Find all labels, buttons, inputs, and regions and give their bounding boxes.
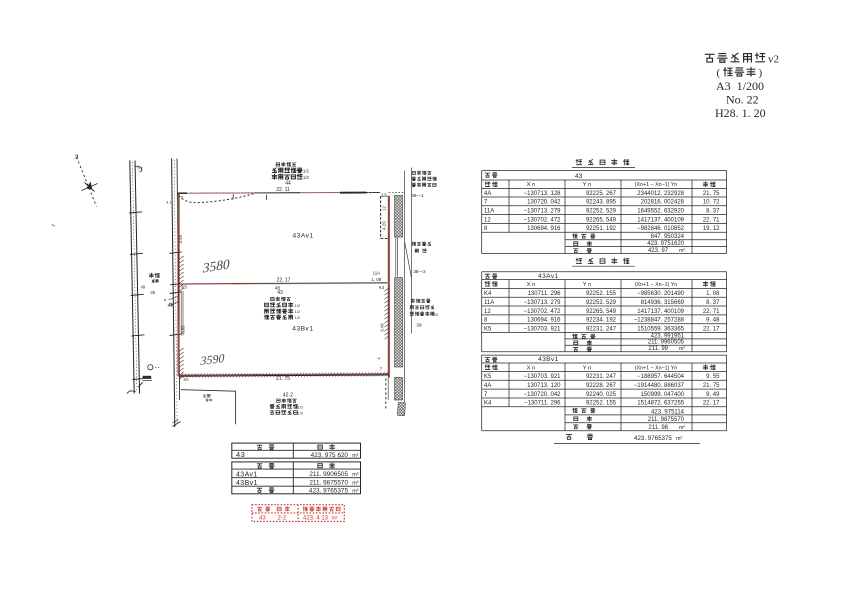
svg-text:43Bv1: 43Bv1 <box>236 480 258 487</box>
svg-text:−130720. 042: −130720. 042 <box>524 392 562 398</box>
svg-text:×: × <box>164 298 167 304</box>
svg-text:−130703. 921: −130703. 921 <box>524 374 562 380</box>
svg-text:22. 11: 22. 11 <box>276 187 290 193</box>
svg-text:92251. 192: 92251. 192 <box>586 226 617 232</box>
svg-text:19. 12: 19. 12 <box>703 226 720 232</box>
svg-text:92240. 025: 92240. 025 <box>586 392 617 398</box>
svg-text:847. 950324: 847. 950324 <box>651 234 685 240</box>
boundary step line to parcel 42-2 <box>181 390 236 425</box>
svg-text:11A: 11A <box>484 300 494 306</box>
svg-text:92252. 529: 92252. 529 <box>586 300 617 306</box>
parcel bottom boundary (4A to 7) with hatch <box>179 372 389 378</box>
svg-text:1/2: 1/2 <box>295 303 301 308</box>
svg-text:): ) <box>759 67 763 79</box>
svg-text:43Av1: 43Av1 <box>538 273 559 280</box>
survey marks near K5 <box>164 297 178 308</box>
svg-text:814936. 315669: 814936. 315669 <box>641 300 685 306</box>
area summary table divided parcels <box>232 462 361 495</box>
svg-text:1649552. 632920: 1649552. 632920 <box>637 209 684 215</box>
svg-text:−188957. 644504: −188957. 644504 <box>637 374 685 380</box>
svg-text:4.49: 4.49 <box>178 235 183 244</box>
road west bottom hook <box>127 391 136 394</box>
area summary table parcel 43 <box>232 443 361 459</box>
svg-text:9. 49: 9. 49 <box>706 392 720 398</box>
svg-text:22. 17: 22. 17 <box>703 401 720 407</box>
east boundary hatch ticks <box>385 288 389 339</box>
svg-text:m²: m² <box>352 489 358 495</box>
west boundary hatch ticks <box>179 256 183 379</box>
svg-text:211. 9960505: 211. 9960505 <box>648 340 685 346</box>
table title 座標求積表 (43Av1) <box>572 258 635 266</box>
east channel crosshatch strip lower <box>395 378 403 401</box>
svg-text:1417137. 400109: 1417137. 400109 <box>637 217 684 223</box>
svg-text:38—1: 38—1 <box>411 193 424 198</box>
svg-text:4A: 4A <box>183 377 190 382</box>
svg-text:No. 22: No. 22 <box>726 93 759 107</box>
grand total 合計 <box>554 434 700 443</box>
svg-text:130711. 296: 130711. 296 <box>528 291 562 297</box>
svg-text:44: 44 <box>285 180 291 186</box>
svg-text:43: 43 <box>277 290 283 296</box>
svg-text:−130711. 296: −130711. 296 <box>524 401 561 407</box>
east channel crosshatch stub below <box>397 402 405 415</box>
svg-text:1/2: 1/2 <box>295 309 301 314</box>
svg-text:Y n: Y n <box>583 282 592 288</box>
svg-text:(Xn+1 − Xn−1) Yn: (Xn+1 − Xn−1) Yn <box>635 365 678 371</box>
svg-text:130713. 120: 130713. 120 <box>527 383 561 389</box>
svg-text:9. 55: 9. 55 <box>706 374 720 380</box>
svg-text:1/2: 1/2 <box>295 315 301 320</box>
svg-text:38—2: 38—2 <box>413 269 426 274</box>
owner block inside 43Bv1 <box>264 285 300 320</box>
svg-text:43: 43 <box>259 515 266 521</box>
east outer road line 2 <box>411 168 413 334</box>
svg-text:11A: 11A <box>484 209 494 215</box>
svg-text:4A: 4A <box>484 383 491 389</box>
svg-text:−130713. 279: −130713. 279 <box>524 300 562 306</box>
svg-text:92234. 192: 92234. 192 <box>586 318 617 324</box>
road west tick marks <box>129 212 145 380</box>
svg-text:12: 12 <box>484 217 491 223</box>
svg-text:43Av1: 43Av1 <box>236 471 258 478</box>
svg-text:(: ( <box>717 67 721 79</box>
east road diagonal joint <box>405 243 412 278</box>
svg-text:8. 37: 8. 37 <box>706 209 720 215</box>
road east lower hatch mark <box>173 420 181 427</box>
svg-text:v2: v2 <box>768 54 779 66</box>
svg-text:4.20: 4.20 <box>382 221 387 230</box>
svg-text:423. 4 13: 423. 4 13 <box>303 515 329 521</box>
svg-text:11A: 11A <box>373 270 381 275</box>
notch dimension text (rotated) <box>382 206 387 230</box>
drawing title 分割計画図v2 <box>705 53 779 65</box>
svg-text:423. 9751620: 423. 9751620 <box>647 241 684 247</box>
svg-text:92225. 267: 92225. 267 <box>586 191 617 197</box>
east outer road line 1 <box>404 171 406 403</box>
svg-text:K4: K4 <box>484 291 492 297</box>
parcel top boundary (point 7 to 13) <box>178 191 405 197</box>
svg-text:1/2: 1/2 <box>298 410 304 415</box>
svg-text:1417137. 400109: 1417137. 400109 <box>637 309 684 315</box>
svg-text:49: 49 <box>141 284 146 289</box>
coordinate area table parcel 43Av1 <box>482 272 727 352</box>
divider line K5-K4 <box>170 283 389 285</box>
svg-text:423. 991951: 423. 991951 <box>651 333 685 339</box>
svg-text:K5: K5 <box>484 374 492 380</box>
svg-text:92265. 549: 92265. 549 <box>586 217 617 223</box>
notch inner boundary at point 13 <box>381 196 389 238</box>
svg-text:211. 9875570: 211. 9875570 <box>309 480 348 487</box>
svg-text:1/2: 1/2 <box>433 313 438 317</box>
neighbour block 38-1 labels <box>411 171 436 198</box>
svg-text:1510559. 363365: 1510559. 363365 <box>637 326 684 332</box>
neighbour block 39 labels <box>410 299 438 329</box>
svg-text:−130703. 921: −130703. 921 <box>524 326 562 332</box>
coordinate area table parcel 43 <box>482 171 727 254</box>
coordinate area table parcel 43Bv1 <box>482 355 727 431</box>
svg-text:Y n: Y n <box>583 182 592 188</box>
svg-text:5-2: 5-2 <box>138 167 143 171</box>
svg-text:35: 35 <box>150 290 155 295</box>
small cursive label near step <box>203 394 212 401</box>
boundary dashed continuation below SE corner <box>385 379 387 411</box>
svg-text:22. 71: 22. 71 <box>703 309 720 315</box>
svg-text:130694. 916: 130694. 916 <box>527 226 561 232</box>
svg-text:9. 48: 9. 48 <box>706 318 720 324</box>
north arrow <box>76 155 98 207</box>
svg-text:92231. 247: 92231. 247 <box>586 326 617 332</box>
svg-text:423. 9765375: 423. 9765375 <box>309 488 349 495</box>
svg-text:423. 97: 423. 97 <box>648 248 669 254</box>
svg-text:K4: K4 <box>484 401 492 407</box>
svg-text:9.49: 9.49 <box>379 323 384 332</box>
neighbour block 38-2 labels <box>412 242 431 274</box>
table title 座標求積表 (43) <box>572 159 635 167</box>
svg-text:130720. 042: 130720. 042 <box>527 200 561 206</box>
svg-text:−130702. 472: −130702. 472 <box>524 217 562 223</box>
svg-text:1. 08: 1. 08 <box>706 291 720 297</box>
svg-text:Y n: Y n <box>583 365 592 371</box>
svg-text:−982846. 010852: −982846. 010852 <box>637 226 685 232</box>
svg-text:m²: m² <box>352 472 358 478</box>
svg-text:m²: m² <box>676 436 682 442</box>
svg-text:423. 9765375: 423. 9765375 <box>634 435 672 442</box>
svg-text:43Bv1: 43Bv1 <box>538 356 559 363</box>
svg-text:130694. 916: 130694. 916 <box>527 318 561 324</box>
svg-text:92243. 895: 92243. 895 <box>586 200 617 206</box>
svg-text:H28. 1. 20: H28. 1. 20 <box>715 106 766 120</box>
svg-text:K4: K4 <box>379 285 385 290</box>
east channel crosshatch strip middle <box>395 278 403 368</box>
svg-text:43: 43 <box>575 173 583 180</box>
svg-text:K5: K5 <box>182 285 188 290</box>
svg-text:92252. 529: 92252. 529 <box>586 209 617 215</box>
svg-text:m²: m² <box>679 248 685 254</box>
svg-text:−985630. 201490: −985630. 201490 <box>637 291 685 297</box>
road east edge lines <box>172 159 180 428</box>
svg-text:K5: K5 <box>484 326 492 332</box>
svg-text:−130713. 128: −130713. 128 <box>524 191 562 197</box>
svg-text:39: 39 <box>416 323 422 329</box>
svg-text:92228. 267: 92228. 267 <box>586 383 617 389</box>
svg-text:211. 9906505: 211. 9906505 <box>309 471 348 478</box>
svg-text:92265. 549: 92265. 549 <box>586 309 617 315</box>
road area point labels <box>141 284 156 295</box>
svg-text:21. 75: 21. 75 <box>276 376 290 382</box>
svg-text:X n: X n <box>527 365 536 371</box>
svg-text:423. 975114: 423. 975114 <box>651 409 685 415</box>
svg-text:m²: m² <box>679 425 685 431</box>
svg-text:92252. 155: 92252. 155 <box>586 401 617 407</box>
svg-text:1/2: 1/2 <box>303 175 309 180</box>
svg-text:22. 71: 22. 71 <box>703 217 720 223</box>
svg-text:423. 975 620: 423. 975 620 <box>311 452 349 459</box>
svg-text:92231. 247: 92231. 247 <box>586 374 617 380</box>
svg-text:2344012. 232928: 2344012. 232928 <box>637 191 684 197</box>
svg-text:150999. 047400: 150999. 047400 <box>641 392 685 398</box>
stray mark far west <box>52 225 55 227</box>
svg-text:1514872. 637255: 1514872. 637255 <box>637 401 684 407</box>
parcel 42-2 label block <box>270 392 304 415</box>
svg-text:12: 12 <box>382 206 387 212</box>
svg-text:211. 99: 211. 99 <box>648 346 668 352</box>
road west bottom scribble <box>138 376 152 387</box>
road east tick marks <box>170 252 182 336</box>
subtitle (予定図) <box>717 67 763 79</box>
svg-text:(Xn+1 − Xn−1) Yn: (Xn+1 − Xn−1) Yn <box>635 182 678 188</box>
svg-text:(Xn+1 − Xn−1) Yn: (Xn+1 − Xn−1) Yn <box>635 282 678 288</box>
manhole circle symbol <box>148 365 159 370</box>
svg-text:13: 13 <box>381 193 387 198</box>
road area small kanji labels <box>149 273 159 282</box>
svg-text:m²: m² <box>352 453 358 459</box>
red stamp verification table <box>252 505 344 522</box>
svg-text:8. 37: 8. 37 <box>706 300 720 306</box>
svg-text:12: 12 <box>484 309 491 315</box>
svg-text:211. 98: 211. 98 <box>648 425 668 431</box>
svg-text:A3 1/200: A3 1/200 <box>716 79 764 93</box>
svg-text:22. 17: 22. 17 <box>277 277 291 283</box>
old boundary dashed dip curve <box>179 194 254 203</box>
svg-text:211. 9875570: 211. 9875570 <box>648 417 685 423</box>
svg-text:X n: X n <box>527 182 536 188</box>
svg-text:1. 08: 1. 08 <box>371 277 381 282</box>
top boundary witness ticks <box>233 194 267 200</box>
svg-text:10. 72: 10. 72 <box>703 200 720 206</box>
svg-text:1/2: 1/2 <box>298 404 304 409</box>
svg-text:−130713. 279: −130713. 279 <box>524 209 562 215</box>
road west top hook <box>136 166 142 172</box>
west edge inner offset lines <box>181 291 183 336</box>
owner block above (parcel 44) <box>272 162 309 193</box>
svg-text:202816. 002428: 202816. 002428 <box>641 200 685 206</box>
svg-text:42-2: 42-2 <box>283 392 293 398</box>
svg-text:m²: m² <box>332 515 338 521</box>
road west edge lines <box>130 161 140 394</box>
svg-text:X n: X n <box>527 282 536 288</box>
svg-text:43Bv1: 43Bv1 <box>292 326 313 333</box>
svg-text:4A: 4A <box>484 191 491 197</box>
svg-text:21. 75: 21. 75 <box>703 191 720 197</box>
svg-text:1/2: 1/2 <box>303 169 309 174</box>
svg-text:22. 17: 22. 17 <box>703 326 720 332</box>
svg-text:m²: m² <box>679 346 685 352</box>
svg-text:−1238847. 257288: −1238847. 257288 <box>634 318 685 324</box>
east channel gap twin lines <box>396 238 398 277</box>
svg-text:3.1: 3.1 <box>166 200 172 205</box>
svg-text:92252. 155: 92252. 155 <box>586 291 617 297</box>
svg-text:m²: m² <box>352 481 358 487</box>
east channel crosshatch strip upper <box>395 196 403 238</box>
parcel west boundary (red) <box>178 193 179 376</box>
parcel east boundary (red) <box>388 196 389 400</box>
svg-text:21. 75: 21. 75 <box>703 383 720 389</box>
svg-text:2-2: 2-2 <box>278 515 287 521</box>
svg-text:−1914480. 886037: −1914480. 886037 <box>634 383 685 389</box>
svg-text:−130702. 472: −130702. 472 <box>524 309 562 315</box>
svg-text:43: 43 <box>236 450 245 459</box>
svg-text:43Av1: 43Av1 <box>293 233 314 240</box>
